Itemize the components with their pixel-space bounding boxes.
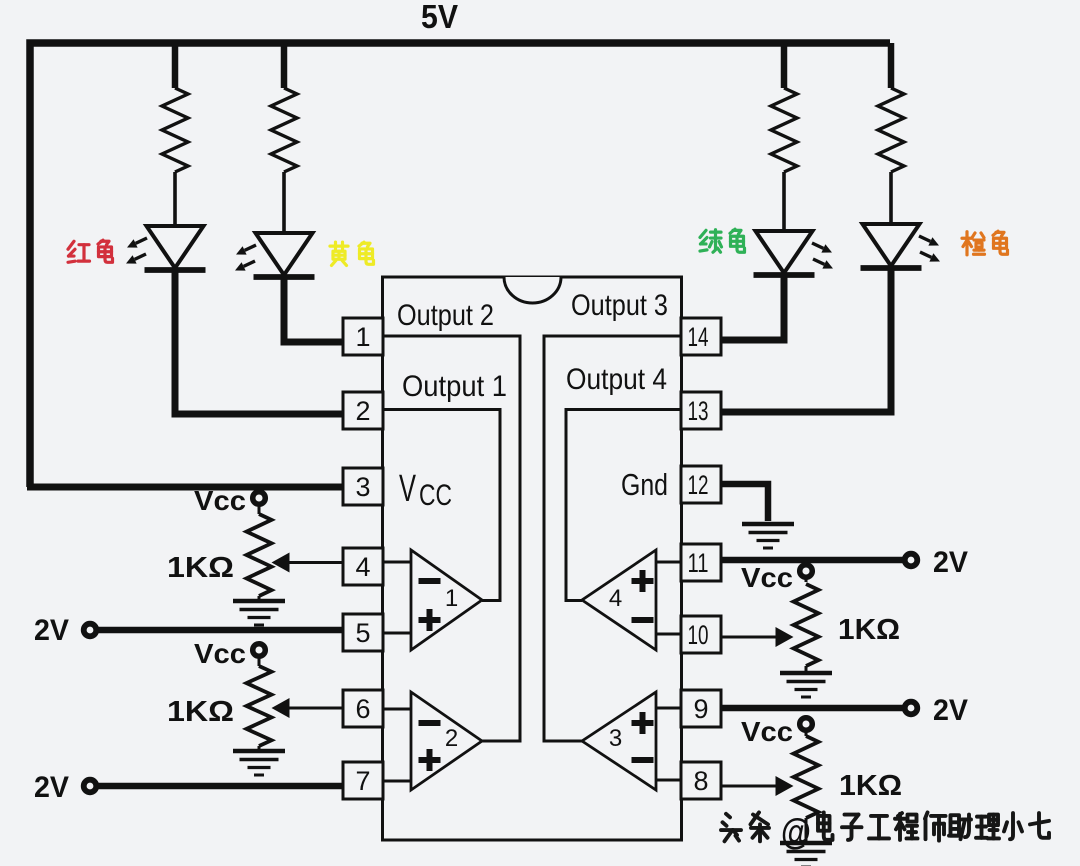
svg-text:Output 1: Output 1: [402, 370, 507, 403]
svg-text:Output 4: Output 4: [566, 363, 667, 396]
net Output 3: pin 14 to comparator 3 output: [544, 336, 682, 741]
svg-text:4: 4: [609, 585, 622, 612]
wiper arrow RV4 to pin 8: [721, 785, 776, 788]
potentiometer RV4 1K: [805, 730, 808, 736]
LED D4 orange light arrows: [919, 236, 930, 241]
pin 1: [343, 318, 383, 355]
wiper arrow RV1 to pin 4: [289, 561, 343, 564]
svg-text:4: 4: [355, 552, 370, 582]
svg-text:1: 1: [445, 585, 458, 612]
pin 11: [681, 544, 721, 581]
potentiometer RV3 1K: [805, 577, 808, 582]
resistor R4: [888, 43, 895, 88]
LED D1 red light arrows: [136, 238, 147, 243]
label 黄色 (yellow): [330, 242, 348, 265]
pin 7: [343, 762, 383, 799]
pin 4: [343, 548, 383, 585]
pin 9: [681, 690, 721, 727]
net Output 2: pin 1 to comparator 2 output: [382, 336, 520, 741]
ground RV3: [780, 673, 832, 697]
potentiometer RV1 1K: [258, 504, 261, 514]
pin 8: [681, 762, 721, 799]
svg-text:2: 2: [355, 396, 370, 426]
svg-text:13: 13: [688, 396, 709, 426]
wire pin to comparator input: [656, 633, 681, 636]
svg-text:2V: 2V: [34, 771, 69, 804]
pin 13: [681, 392, 721, 429]
resistor R3: [781, 43, 788, 88]
wire pin 9 to 2V terminal: [721, 705, 904, 712]
svg-text:@: @: [781, 811, 811, 852]
pin 3: [343, 468, 383, 505]
svg-text:10: 10: [688, 620, 709, 650]
svg-text:Output 3: Output 3: [571, 289, 668, 322]
wire LED D1 (red) to pin 2: [175, 272, 343, 414]
wire left rail to pin 3: [27, 484, 343, 491]
LED D2 yellow light arrows: [245, 245, 256, 250]
svg-text:5V: 5V: [421, 0, 458, 35]
wire pin to comparator input: [383, 632, 411, 635]
svg-text:2: 2: [445, 725, 458, 752]
svg-text:2V: 2V: [933, 546, 968, 579]
op-amp comparator 4: [582, 550, 656, 650]
wiper arrow RV2 to pin 6: [289, 707, 343, 710]
pin 2: [343, 392, 383, 429]
svg-text:1KΩ: 1KΩ: [167, 696, 234, 728]
wire LED D3 (green) to pin 14: [721, 277, 784, 340]
IC notch: [504, 277, 561, 303]
wire R3 to LED D3 green: [782, 172, 786, 231]
svg-text:3: 3: [355, 472, 370, 502]
net Output 1: pin 2 to comparator 1 output: [382, 410, 500, 601]
op-amp comparator 2: [411, 692, 482, 790]
pin 14: [681, 318, 721, 355]
label 绿色 (green): [700, 230, 722, 252]
svg-text:1KΩ: 1KΩ: [167, 552, 234, 584]
wire R1 to LED D1 red: [173, 172, 177, 226]
wire 2V to pin 7: [97, 783, 343, 790]
wire 2V to pin 5: [97, 627, 343, 634]
svg-text:Gnd: Gnd: [621, 467, 668, 502]
wire pin 12 to ground: [721, 484, 768, 521]
svg-text:Output 2: Output 2: [397, 299, 494, 332]
svg-text:2V: 2V: [34, 614, 69, 647]
wire pin 11 to 2V terminal: [721, 557, 904, 564]
pin 12: [681, 466, 721, 503]
svg-text:1KΩ: 1KΩ: [839, 770, 902, 802]
wire LED D2 (yellow) to pin 1: [284, 279, 343, 342]
resistor R1: [172, 43, 179, 88]
pin 10: [681, 616, 721, 653]
wire LED D4 (orange) to pin 13: [721, 270, 891, 412]
svg-text:1: 1: [355, 322, 370, 352]
ground pin 12: [742, 524, 794, 548]
ground RV1: [233, 601, 285, 625]
wire pin to comparator input: [383, 708, 411, 711]
op-amp IC U1 (LM339) body: [383, 277, 682, 840]
svg-text:8: 8: [693, 766, 708, 796]
svg-text:12: 12: [688, 470, 709, 500]
label 橙色 (orange): [962, 232, 985, 255]
wire 5V top rail and left rail: [30, 43, 890, 487]
svg-text:1KΩ: 1KΩ: [838, 614, 900, 646]
watermark 头条@电子工程师助理小七: [721, 814, 741, 841]
svg-text:Vcc: Vcc: [194, 638, 246, 669]
wire pin to comparator input: [656, 779, 681, 782]
ground RV4: [780, 843, 832, 866]
wire pin to comparator input: [656, 561, 681, 564]
LED D2 yellow: [256, 233, 313, 275]
label 红色 (red): [68, 241, 90, 262]
net Output 4: pin 13 to comparator 4 output: [566, 410, 682, 601]
pin 5: [343, 614, 383, 651]
wire pin to comparator input: [383, 780, 411, 783]
wire R4 to LED D4 orange: [889, 172, 893, 224]
op-amp comparator 1: [411, 550, 482, 650]
wire R2 to LED D2 yellow: [282, 172, 286, 233]
potentiometer RV2 1K: [258, 656, 261, 666]
pin 6: [343, 690, 383, 727]
LED D4 orange: [863, 224, 920, 266]
svg-text:5: 5: [355, 618, 370, 648]
svg-text:14: 14: [688, 322, 709, 352]
svg-text:Vcc: Vcc: [741, 562, 793, 593]
svg-text:Vcc: Vcc: [741, 716, 793, 747]
ground RV2: [233, 751, 285, 775]
resistor R2: [281, 43, 288, 88]
svg-text:2V: 2V: [933, 694, 968, 727]
svg-text:6: 6: [355, 694, 370, 724]
LED D3 green light arrows: [812, 243, 823, 248]
LED D3 green: [756, 231, 813, 273]
svg-text:CC: CC: [419, 479, 452, 512]
wire pin to comparator input: [383, 561, 411, 564]
svg-text:11: 11: [688, 548, 709, 578]
svg-text:9: 9: [693, 694, 708, 724]
wire pin to comparator input: [656, 707, 681, 710]
LED D1 red: [147, 226, 204, 268]
wiper arrow RV3 to pin 10: [721, 636, 776, 639]
op-amp comparator 3: [582, 692, 656, 790]
svg-text:V: V: [399, 468, 416, 510]
svg-text:3: 3: [609, 725, 622, 752]
svg-text:Vcc: Vcc: [194, 485, 246, 516]
svg-text:7: 7: [355, 766, 370, 796]
